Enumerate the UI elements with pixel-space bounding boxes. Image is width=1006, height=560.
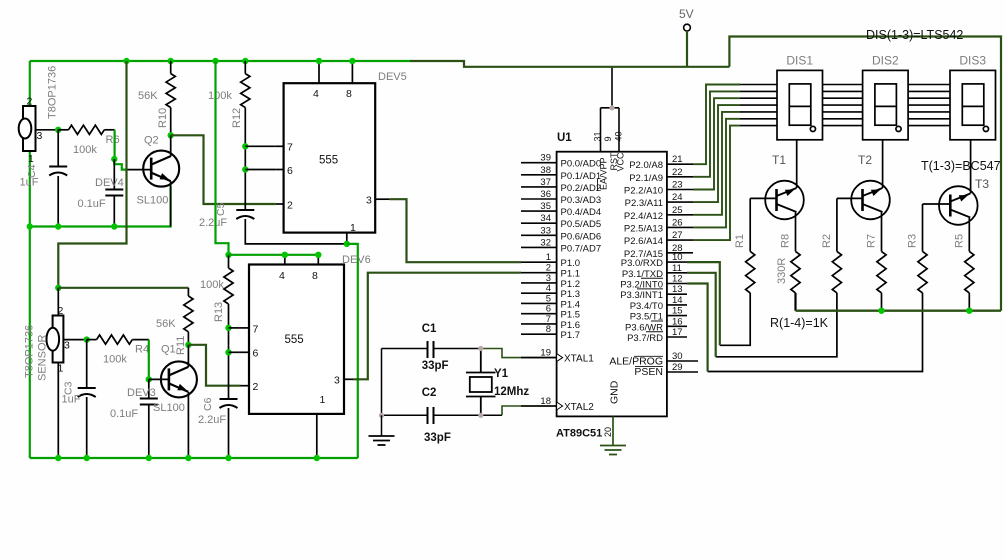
- wire R1 bottom: [720, 293, 750, 345]
- svg-text:U1: U1: [557, 132, 572, 144]
- svg-text:PSEN: PSEN: [634, 366, 663, 378]
- svg-text:SL100: SL100: [137, 195, 169, 207]
- wire R7 bottom: [881, 293, 883, 311]
- pin 2 stub: [521, 272, 557, 274]
- pin 39 stub: [521, 162, 557, 164]
- node Q2 collector: [168, 132, 174, 138]
- svg-text:P3.4/T0: P3.4/T0: [630, 301, 663, 312]
- svg-text:12Mhz: 12Mhz: [494, 386, 529, 398]
- wire R3 bottom: [708, 293, 923, 372]
- wire T1 emitter to R8: [795, 213, 797, 252]
- svg-text:32: 32: [540, 237, 551, 248]
- wire R4 right: [132, 339, 149, 341]
- svg-text:2: 2: [287, 200, 293, 212]
- capacitor C2 33pF: [428, 407, 434, 424]
- pin 16 stub: [667, 325, 687, 327]
- wire bottom ground rail: [30, 457, 358, 459]
- svg-text:19: 19: [540, 348, 551, 359]
- node RST top: [609, 105, 614, 110]
- svg-text:10: 10: [672, 252, 683, 263]
- resistor R6: [69, 125, 105, 134]
- wire row 3 DIS2-DIS3: [908, 97, 950, 99]
- svg-text:C2: C2: [422, 387, 437, 399]
- wire R4 to base node: [148, 340, 150, 380]
- pin 38 stub: [521, 174, 557, 176]
- pin 23 stub: [667, 189, 693, 191]
- pin 6 stub DEV6: [241, 351, 250, 353]
- svg-text:100k: 100k: [208, 90, 232, 102]
- svg-text:2: 2: [253, 381, 259, 393]
- wire R6 right: [104, 129, 114, 131]
- wire left edge lower: [29, 151, 31, 458]
- transistor T3 BC547: [939, 186, 978, 225]
- svg-text:2: 2: [27, 96, 33, 108]
- wire left edge upper: [29, 61, 31, 106]
- svg-text:8: 8: [312, 270, 318, 282]
- svg-text:30: 30: [672, 351, 683, 362]
- wire C1 left: [382, 348, 428, 350]
- node C2 left: [379, 413, 384, 418]
- svg-text:C1: C1: [422, 323, 437, 335]
- wire segment row 3 into DIS1: [740, 97, 777, 99]
- wire C4 top: [57, 130, 59, 167]
- node DEV5 pin4 V+: [316, 58, 322, 64]
- capacitor DEV3 0.1uF: [140, 398, 158, 400]
- pin 13 stub: [667, 293, 687, 295]
- wire segment row 7 into DIS1: [740, 125, 777, 127]
- pin 7 stub DEV5: [276, 145, 284, 147]
- wire sensor1 pin3: [36, 129, 59, 131]
- pin 10 stub: [667, 261, 687, 263]
- svg-text:R13: R13: [213, 302, 225, 322]
- svg-text:R(1-4)=1K: R(1-4)=1K: [770, 316, 829, 330]
- node DEV5 pin8 V+: [349, 58, 355, 64]
- wire Q1 emitter: [187, 392, 189, 458]
- wire P3.2 to R3: [687, 284, 708, 372]
- resistor R11 56K: [184, 296, 193, 332]
- svg-text:P0.6/AD6: P0.6/AD6: [561, 231, 602, 242]
- resistor R7: [877, 251, 886, 293]
- node DEV3 gnd: [146, 455, 152, 461]
- svg-text:P0.7/AD7: P0.7/AD7: [561, 243, 602, 254]
- svg-text:SL100: SL100: [153, 402, 185, 414]
- wire Q1 base: [149, 378, 169, 380]
- svg-text:26: 26: [672, 217, 683, 228]
- svg-text:1uF: 1uF: [62, 394, 81, 406]
- wire DEV5 pin8: [351, 61, 353, 83]
- svg-text:15: 15: [672, 306, 683, 317]
- node DEV6 pin8 V+: [315, 252, 321, 258]
- wire Q2 emitter: [170, 181, 172, 227]
- svg-text:3: 3: [37, 130, 43, 142]
- pin 6 stub DEV5: [276, 169, 284, 171]
- wire C1 right: [434, 348, 481, 350]
- svg-text:27: 27: [672, 230, 683, 241]
- wire DEV5 gnd down: [347, 244, 358, 458]
- node crystal top: [478, 346, 483, 351]
- node sensor2 feed top: [123, 58, 129, 64]
- wire to DEV6 pin7: [229, 327, 241, 329]
- svg-text:8: 8: [346, 88, 352, 100]
- capacitor C3 1uF: [78, 387, 96, 389]
- wire R12 bottom / C5 top: [244, 108, 246, 211]
- pin 24 stub: [667, 201, 693, 203]
- pin 22 stub: [667, 176, 693, 178]
- wire 5V feed: [410, 61, 729, 67]
- wire Q2 base: [127, 169, 152, 171]
- svg-text:37: 37: [540, 177, 551, 188]
- display DIS3 LTS542: [950, 70, 996, 139]
- svg-text:4: 4: [279, 270, 285, 282]
- wire DEV3 top: [148, 379, 150, 398]
- transistor Q2 SL100: [143, 151, 179, 187]
- svg-text:1: 1: [350, 222, 356, 234]
- wire segment row 5 into DIS1: [740, 111, 777, 113]
- wire T2 emitter to R7: [881, 213, 883, 252]
- svg-text:33: 33: [540, 225, 551, 236]
- wire row 3 DIS1-DIS2: [823, 97, 863, 99]
- svg-text:33pF: 33pF: [422, 360, 449, 372]
- node DEV6 pin4 V+: [282, 252, 288, 258]
- svg-text:GND: GND: [609, 380, 621, 404]
- svg-text:P1.0: P1.0: [561, 258, 581, 269]
- wire V+ to sensor2 pin2: [58, 61, 126, 288]
- svg-text:T8OP1736: T8OP1736: [47, 66, 59, 119]
- resistor R4: [97, 335, 133, 344]
- resistor R13 100k: [224, 268, 233, 304]
- wire C6 bottom: [228, 408, 230, 458]
- wire row 6 DIS1-DIS2: [823, 118, 863, 120]
- svg-text:R8: R8: [780, 234, 792, 248]
- svg-text:Q2: Q2: [144, 135, 159, 147]
- node Q2 base: [111, 156, 117, 162]
- wire DEV4 bottom: [113, 196, 115, 227]
- pin 6 stub: [521, 313, 557, 315]
- svg-text:DIS2: DIS2: [872, 54, 899, 68]
- wire C2 right: [434, 414, 502, 416]
- svg-text:100k: 100k: [103, 354, 127, 366]
- wire T3 base: [923, 203, 951, 205]
- node C6 gnd: [225, 455, 231, 461]
- transistor T2 BC547: [851, 181, 890, 220]
- svg-text:1: 1: [320, 394, 326, 406]
- svg-text:DEV4: DEV4: [95, 177, 124, 189]
- resistor R12 100k: [241, 74, 250, 108]
- svg-text:R4: R4: [135, 344, 149, 356]
- svg-text:DEV6: DEV6: [342, 254, 371, 266]
- svg-text:P2.5/A13: P2.5/A13: [624, 223, 663, 234]
- node R5: [966, 308, 972, 314]
- svg-text:5V: 5V: [679, 7, 694, 21]
- svg-text:6: 6: [253, 348, 259, 360]
- svg-text:3: 3: [334, 375, 340, 387]
- wire Q1 collector to DEV6 pin2: [188, 345, 240, 386]
- wire crystal left vertical: [381, 349, 383, 416]
- svg-text:R7: R7: [866, 234, 878, 248]
- svg-text:36: 36: [540, 189, 551, 200]
- wire to DEV5 pin6: [245, 169, 275, 171]
- wire R11 bottom: [187, 332, 189, 345]
- svg-text:22: 22: [672, 167, 683, 178]
- wire row 5 DIS1-DIS2: [823, 111, 863, 113]
- wire R6 to base node: [113, 130, 115, 159]
- svg-text:2.2uF: 2.2uF: [199, 217, 227, 229]
- wire R1 to T1 base: [749, 198, 751, 251]
- svg-text:Q1: Q1: [161, 344, 176, 356]
- svg-text:39: 39: [540, 153, 551, 164]
- node DEV6 feed top: [212, 58, 218, 64]
- node R13 top: [225, 252, 231, 258]
- wire DEV5 out to P1.0: [390, 199, 521, 262]
- pin 5 stub: [521, 302, 557, 304]
- pin 19 stub: [521, 357, 557, 359]
- sensor TSOP1736 (top): [19, 106, 36, 151]
- svg-text:33pF: 33pF: [424, 432, 451, 444]
- svg-text:P2.0/A8: P2.0/A8: [629, 160, 663, 171]
- pin 3 stub DEV5: [375, 198, 390, 200]
- svg-text:P0.1/AD1: P0.1/AD1: [561, 171, 602, 182]
- ground (MCU): [600, 446, 626, 455]
- pin 1 stub: [521, 261, 557, 263]
- svg-text:P2.4/A12: P2.4/A12: [624, 211, 663, 222]
- pin 35 stub: [521, 210, 557, 212]
- sensor TSOP1736 SENSOR (bottom): [47, 316, 64, 363]
- svg-text:1: 1: [28, 153, 34, 165]
- wire row 4 DIS2-DIS3: [908, 104, 950, 106]
- node sensor1 pin3: [55, 127, 61, 133]
- wire row 2 DIS1-DIS2: [823, 90, 863, 92]
- pin 34 stub: [521, 222, 557, 224]
- svg-text:35: 35: [540, 201, 551, 212]
- pin 25 stub: [667, 214, 693, 216]
- wire row 7 DIS1-DIS2: [823, 125, 863, 127]
- wire T2 base: [837, 197, 863, 199]
- svg-text:XTAL2: XTAL2: [564, 402, 594, 413]
- pin 8 stub: [521, 333, 557, 335]
- transistor T1 BC547: [765, 181, 804, 220]
- wire R2 to T2 base: [836, 198, 838, 251]
- svg-text:P0.0/AD0: P0.0/AD0: [561, 159, 602, 170]
- wire sensor2 pin2: [57, 288, 59, 316]
- wire R13 top: [228, 255, 230, 268]
- node DEV5 pin1 gnd: [344, 241, 350, 247]
- wire P3.1 to R2: [687, 273, 716, 357]
- wire sensor2 pin2 to R11: [58, 287, 188, 289]
- wire R12 top: [244, 61, 246, 74]
- wire DEV6 out to P1.1: [353, 273, 521, 380]
- wire C3 top: [86, 340, 88, 388]
- pin 36 stub: [521, 198, 557, 200]
- wire base jog: [114, 159, 126, 170]
- wire to XTAL1: [481, 349, 557, 358]
- svg-text:VCC: VCC: [616, 152, 626, 172]
- wire top V+ rail: [30, 60, 410, 62]
- svg-text:38: 38: [540, 165, 551, 176]
- wire row 2 DIS2-DIS3: [908, 90, 950, 92]
- wire to DEV5 pin7: [245, 145, 275, 147]
- svg-text:2.2uF: 2.2uF: [198, 414, 226, 426]
- wire P2.4 to segment row 5: [693, 112, 740, 215]
- pin 2 stub DEV5: [276, 203, 284, 205]
- pin 4 stub: [521, 292, 557, 294]
- svg-text:P2.1/A9: P2.1/A9: [629, 173, 663, 184]
- svg-text:40: 40: [614, 131, 624, 141]
- pin 7 stub: [521, 323, 557, 325]
- resistor R2: [832, 251, 841, 293]
- svg-text:DIS(1-3)=LTS542: DIS(1-3)=LTS542: [866, 28, 963, 42]
- svg-text:T8OP1736: T8OP1736: [24, 325, 36, 378]
- wire DEV6 pin4: [284, 255, 286, 265]
- node Q1 collector: [185, 342, 191, 348]
- wire P2.3 to segment row 4: [693, 105, 740, 202]
- wire P3.0 to R1: [687, 262, 720, 345]
- svg-text:17: 17: [672, 327, 683, 338]
- svg-text:R12: R12: [231, 108, 243, 128]
- node DEV6 pin1 gnd: [314, 455, 320, 461]
- svg-text:3: 3: [366, 195, 372, 207]
- svg-text:56K: 56K: [156, 318, 176, 330]
- wire segment row 6 into DIS1: [740, 118, 777, 120]
- resistor R5: [965, 251, 974, 293]
- crystal Y1 12Mhz: [466, 349, 496, 416]
- svg-text:T1: T1: [772, 153, 786, 167]
- svg-text:P3.3/INT1: P3.3/INT1: [620, 290, 663, 301]
- svg-text:R10: R10: [157, 108, 169, 128]
- capacitor C6 2.2uF: [220, 398, 238, 400]
- capacitor C1 33pF: [428, 341, 434, 358]
- wire row 1 DIS1-DIS2: [823, 84, 863, 86]
- svg-text:R6: R6: [106, 134, 120, 146]
- node R10 top: [168, 58, 174, 64]
- svg-text:1uF: 1uF: [20, 177, 39, 189]
- op-amp/timer U DEV6 555: [249, 265, 344, 414]
- pin 29 stub: [667, 371, 698, 373]
- node sensor2 gnd: [55, 455, 61, 461]
- capacitor C4 1uF: [49, 166, 67, 168]
- wire R8 bottom: [794, 293, 796, 311]
- svg-text:555: 555: [319, 155, 338, 167]
- wire R2 bottom: [716, 293, 837, 357]
- capacitor DEV4 0.1uF: [105, 189, 123, 191]
- svg-text:DEV3: DEV3: [127, 387, 156, 399]
- wire DEV3 bottom: [148, 405, 150, 458]
- pin 11 stub: [667, 272, 687, 274]
- svg-text:555: 555: [285, 334, 304, 346]
- pin 27 stub: [667, 239, 693, 241]
- node DEV5 pin6: [242, 166, 248, 172]
- wire 5V to display block: [729, 37, 1001, 311]
- wire segment row 2 into DIS1: [740, 90, 777, 92]
- svg-text:9: 9: [603, 136, 613, 141]
- pin 32 stub: [521, 246, 557, 248]
- wire mid ground rail: [30, 186, 171, 227]
- pin 2 stub DEV6: [241, 385, 250, 387]
- node DEV6 pin6: [225, 349, 231, 355]
- svg-text:P0.4/AD4: P0.4/AD4: [561, 207, 602, 218]
- svg-text:31: 31: [593, 131, 603, 141]
- svg-text:C5: C5: [215, 202, 227, 216]
- wire sensor2 pin3: [63, 339, 86, 341]
- svg-text:25: 25: [672, 205, 683, 216]
- wire to DEV6 pin6: [229, 351, 241, 353]
- pin 28 stub: [667, 252, 693, 254]
- wire emitter node to 5V: [796, 310, 1002, 312]
- pin 18 stub: [521, 405, 557, 407]
- pin 14 stub: [667, 304, 687, 306]
- transistor Q1 SL100: [161, 361, 197, 397]
- wire P2.2 to segment row 3: [693, 98, 740, 189]
- svg-text:6: 6: [287, 165, 293, 177]
- svg-text:P2.6/A14: P2.6/A14: [624, 236, 663, 247]
- node Q1 emitter gnd: [185, 455, 191, 461]
- svg-text:R2: R2: [821, 234, 833, 248]
- node DEV4 gnd: [111, 223, 117, 229]
- resistor R3: [918, 251, 927, 293]
- display DIS2 LTS542: [863, 70, 909, 139]
- svg-text:20: 20: [603, 427, 613, 437]
- node sensor2 pin3: [84, 336, 90, 342]
- wire R3 to T3 base: [922, 204, 924, 251]
- pin 12 stub: [667, 283, 687, 285]
- node DEV5 pin7: [242, 143, 248, 149]
- capacitor C5 2.2uF: [236, 209, 254, 211]
- svg-text:29: 29: [672, 362, 683, 373]
- wire DIS1 common to T1: [796, 140, 798, 188]
- svg-text:7: 7: [287, 142, 293, 154]
- op-amp/timer U DEV5 555: [284, 83, 376, 232]
- svg-text:11: 11: [672, 263, 682, 274]
- svg-text:R5: R5: [953, 234, 965, 248]
- pin 20 wire: [612, 416, 614, 445]
- wire T1 base: [750, 197, 776, 199]
- node DEV6 pin7: [225, 325, 231, 331]
- wire P2.6 to segment row 7: [693, 126, 740, 241]
- pin 26 stub: [667, 226, 693, 228]
- wire row 4 DIS1-DIS2: [823, 104, 863, 106]
- svg-text:3: 3: [64, 340, 70, 352]
- pin 21 stub: [667, 163, 693, 165]
- svg-text:7: 7: [253, 323, 259, 335]
- svg-text:14: 14: [672, 295, 683, 306]
- svg-text:100k: 100k: [73, 144, 97, 156]
- pin 17 stub: [667, 336, 687, 338]
- wire R5 bottom: [968, 293, 970, 311]
- svg-text:1: 1: [546, 252, 551, 263]
- wire DIS3 common to T3: [970, 140, 972, 194]
- wire Q2 collector: [170, 135, 172, 156]
- svg-text:0.1uF: 0.1uF: [110, 408, 138, 420]
- resistor R8: [791, 251, 800, 293]
- wire R13 bottom / C6 top: [228, 304, 230, 399]
- svg-text:P3.7/RD: P3.7/RD: [627, 333, 663, 344]
- svg-text:C6: C6: [202, 397, 214, 411]
- svg-text:P0.2/AD2: P0.2/AD2: [561, 183, 602, 194]
- svg-text:T2: T2: [858, 153, 872, 167]
- wire C5 bottom to gnd: [245, 219, 346, 244]
- pin 1 stub DEV6: [316, 414, 318, 458]
- svg-text:P0.3/AD3: P0.3/AD3: [561, 195, 602, 206]
- wire Q1 collector: [187, 345, 189, 367]
- svg-text:16: 16: [672, 316, 683, 327]
- svg-text:R1: R1: [734, 234, 746, 248]
- svg-text:AT89C51: AT89C51: [556, 428, 602, 440]
- wire DEV4 top: [113, 159, 115, 189]
- svg-text:13: 13: [672, 284, 683, 295]
- wire row 7 DIS2-DIS3: [908, 125, 950, 127]
- wire R10 top: [170, 61, 172, 74]
- svg-text:56K: 56K: [138, 90, 158, 102]
- wire Q2 collector to 555 pin2: [171, 135, 276, 204]
